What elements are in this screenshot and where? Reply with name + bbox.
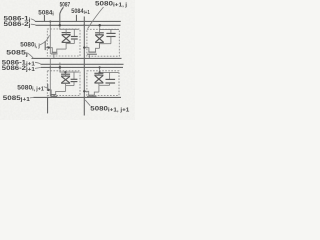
junction dot 5087 on A2 col i+1 <box>98 24 101 27</box>
node wire top of cell i,j <box>60 25 79 29</box>
node wire linking capacitor and LC element <box>66 43 74 45</box>
wire 5084_i segment at cell i,j+1 <box>47 84 49 91</box>
pixel 5080_i+1,j dashed box <box>87 29 119 56</box>
leader 5080_i,j+1 <box>44 87 49 90</box>
pixel 5080_i,j+1 dashed box <box>47 71 80 96</box>
node wire down to drain <box>65 86 67 92</box>
junction dot gate on A2 <box>49 24 51 26</box>
liquid crystal element cell i,j+1 <box>61 73 70 75</box>
pixel 5080_i+1,j+1 dashed box <box>87 71 119 96</box>
liquid crystal element cell i+1,j <box>95 32 104 34</box>
gate wire cell i,j+1 <box>49 59 51 97</box>
gate drop to 5085_j+1 <box>88 96 90 99</box>
node wire linking capacitor and LC element <box>99 84 110 86</box>
node wire X stub down <box>98 44 100 49</box>
junction dot source on 5084_i <box>48 46 50 48</box>
wire 5086-2_j (line A2) <box>36 24 121 26</box>
junction dot source on 5084_i+1 row j+1 <box>83 90 85 92</box>
5087 stub row j+1 <box>59 63 61 68</box>
capacitor cell i+1,j <box>110 29 112 33</box>
leader 5080_i+1,j+1 <box>85 100 90 106</box>
node wire linking capacitor and LC element <box>99 43 111 45</box>
wire 5084_i bottom tail <box>47 97 49 114</box>
gate drop to 5085_j <box>88 54 90 58</box>
transistor cell i+1,j <box>84 48 89 52</box>
transistor cell i,j+1 <box>48 90 51 95</box>
leader 5086-2_j <box>31 23 36 26</box>
junction dot source on 5084_i+1 <box>83 46 85 48</box>
wire 5084_i top tick <box>43 15 45 21</box>
wire 5086-1_j (line A1) <box>35 20 121 22</box>
junction dot stub on C2 col i+1 <box>99 66 101 68</box>
node wire down to drain <box>98 85 100 92</box>
wire 5085_j+1 (line D) <box>34 96 122 98</box>
wire 5087 vertical <box>59 13 61 25</box>
leader 5085_j <box>28 53 34 58</box>
pixel 5080_i,j dashed box <box>47 29 80 56</box>
leader 5086-1_j+1 <box>35 62 41 64</box>
leader 5086-1_j <box>31 19 35 21</box>
leader 5080_i+1,j <box>88 7 104 29</box>
capacitor cell i,j <box>73 29 75 36</box>
junction dot 5087 on C2 <box>59 66 62 69</box>
junction dot gate on A1 <box>49 20 51 22</box>
leader for label 5084_i+1 <box>75 15 77 22</box>
wire 5086-1_j+1 (line C1) <box>41 63 124 65</box>
liquid crystal element cell i+1,j+1 <box>94 72 103 74</box>
transistor cell i,j <box>45 48 52 53</box>
svg-text:5087: 5087 <box>60 1 71 8</box>
junction dot top wire cell i+1,j+1 <box>99 71 101 73</box>
node wire linking capacitor and LC element <box>66 85 74 87</box>
wire 5085_j (line B) <box>32 57 122 59</box>
leader 5080_i,j <box>39 35 49 45</box>
leader 5085_j+1 <box>30 96 34 99</box>
node wire top of cell i,j+1 <box>60 67 79 72</box>
junction dot 5087 on A2 <box>59 24 62 27</box>
leader for label 5087 <box>60 7 64 13</box>
capacitor cell i,j+1 <box>73 72 75 79</box>
gate wire cell i,j <box>49 21 51 54</box>
liquid crystal element cell i,j <box>62 32 71 34</box>
junction dot gate on C2 <box>49 66 51 68</box>
transistor cell i+1,j+1 <box>84 91 89 95</box>
junction 5084_i+1 tail on 5085_j+1 <box>83 97 85 99</box>
wire 5084_i segment at cell i,j <box>44 41 46 50</box>
leader 5086-2_j+1 <box>35 67 41 68</box>
gate drop to 5085_j <box>53 54 55 59</box>
capacitor cell i+1,j+1 <box>109 72 111 79</box>
wire 5086-2_j+1 (line C2) <box>41 66 123 68</box>
junction 5084_i tail on 5085_j+1 <box>47 97 49 99</box>
junction dot jog corner cell i,j+1 <box>64 71 66 73</box>
gate drop to 5085_j+1 <box>52 96 54 97</box>
junction dot gate on A2 col i+1 <box>83 24 85 26</box>
node wire top of cell i+1,j <box>100 25 119 29</box>
node wire top of cell i+1,j+1 <box>100 67 119 72</box>
wire 5084_i+1 vertical line <box>83 17 85 116</box>
junction dot source on 5084_i col j+1 <box>47 89 49 91</box>
